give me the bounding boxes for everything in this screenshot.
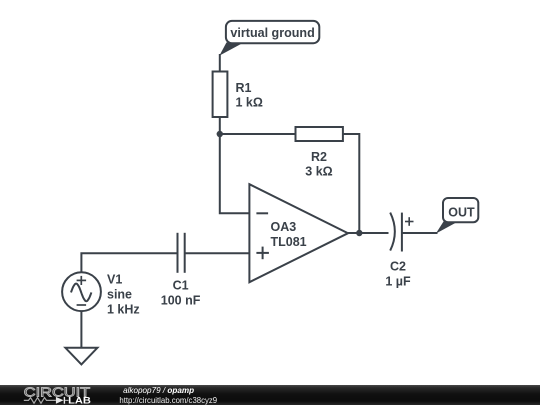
svg-text:R1: R1 — [236, 81, 252, 95]
svg-text:1 µF: 1 µF — [385, 275, 411, 289]
capacitor C1 — [178, 233, 185, 273]
wire junction to R2 left — [220, 133, 296, 135]
wire C2 to OUT flag — [402, 232, 438, 234]
logo diode — [56, 397, 69, 404]
label C2 1 uF — [385, 260, 411, 289]
svg-text:3 kΩ: 3 kΩ — [305, 165, 332, 179]
label R1 1 kOhm — [236, 81, 263, 110]
wire R2 right down to output node — [343, 134, 359, 233]
footer bar — [0, 385, 540, 405]
svg-text:sine: sine — [107, 287, 132, 301]
label R2 3 kOhm — [305, 150, 332, 179]
wire from virtual ground flag to R1 top — [219, 54, 221, 72]
op-amp OA3 — [249, 184, 348, 282]
svg-text:C2: C2 — [390, 260, 406, 274]
svg-text:OA3: OA3 — [271, 220, 297, 234]
label C1 100 nF — [161, 278, 201, 307]
resistor R2 — [296, 127, 343, 141]
svg-text:virtual ground: virtual ground — [230, 26, 314, 40]
wire R1 bottom to op-amp inverting input — [220, 117, 250, 213]
flag tail (OUT) — [436, 221, 459, 234]
label OA3 TL081 — [271, 220, 307, 249]
flag virtual ground — [226, 21, 319, 43]
wire V1 top to C1 left and op-amp non-inverting input — [81, 253, 177, 272]
resistor R1 — [213, 72, 228, 118]
wire V1 bottom to ground — [80, 311, 82, 348]
wire op-amp output to C2 — [348, 232, 389, 234]
capacitor C2 (polarized) — [390, 213, 413, 252]
svg-text:OUT: OUT — [448, 206, 475, 220]
svg-text:C1: C1 — [173, 278, 189, 292]
ground — [65, 348, 97, 365]
node junction at R1/R2 — [217, 131, 223, 137]
svg-text:100 nF: 100 nF — [161, 293, 201, 307]
wire C1 right to op-amp plus input — [185, 252, 250, 254]
svg-text:1 kΩ: 1 kΩ — [236, 96, 263, 110]
voltage source V1 — [62, 272, 101, 311]
flag tail (virtual ground) — [219, 42, 243, 55]
logo resistor zigzag — [24, 398, 56, 404]
node output junction — [356, 230, 362, 236]
svg-text:V1: V1 — [107, 272, 122, 286]
svg-text:LAB: LAB — [68, 396, 91, 405]
flag OUT — [443, 198, 478, 222]
label V1 sine 1 kHz — [107, 272, 140, 316]
svg-text:TL081: TL081 — [271, 235, 307, 249]
svg-text:1 kHz: 1 kHz — [107, 302, 140, 316]
svg-text:http://circuitlab.com/c38cyz9: http://circuitlab.com/c38cyz9 — [119, 396, 217, 405]
svg-text:alkopop79 / opamp: alkopop79 / opamp — [123, 386, 194, 395]
svg-text:R2: R2 — [311, 150, 327, 164]
